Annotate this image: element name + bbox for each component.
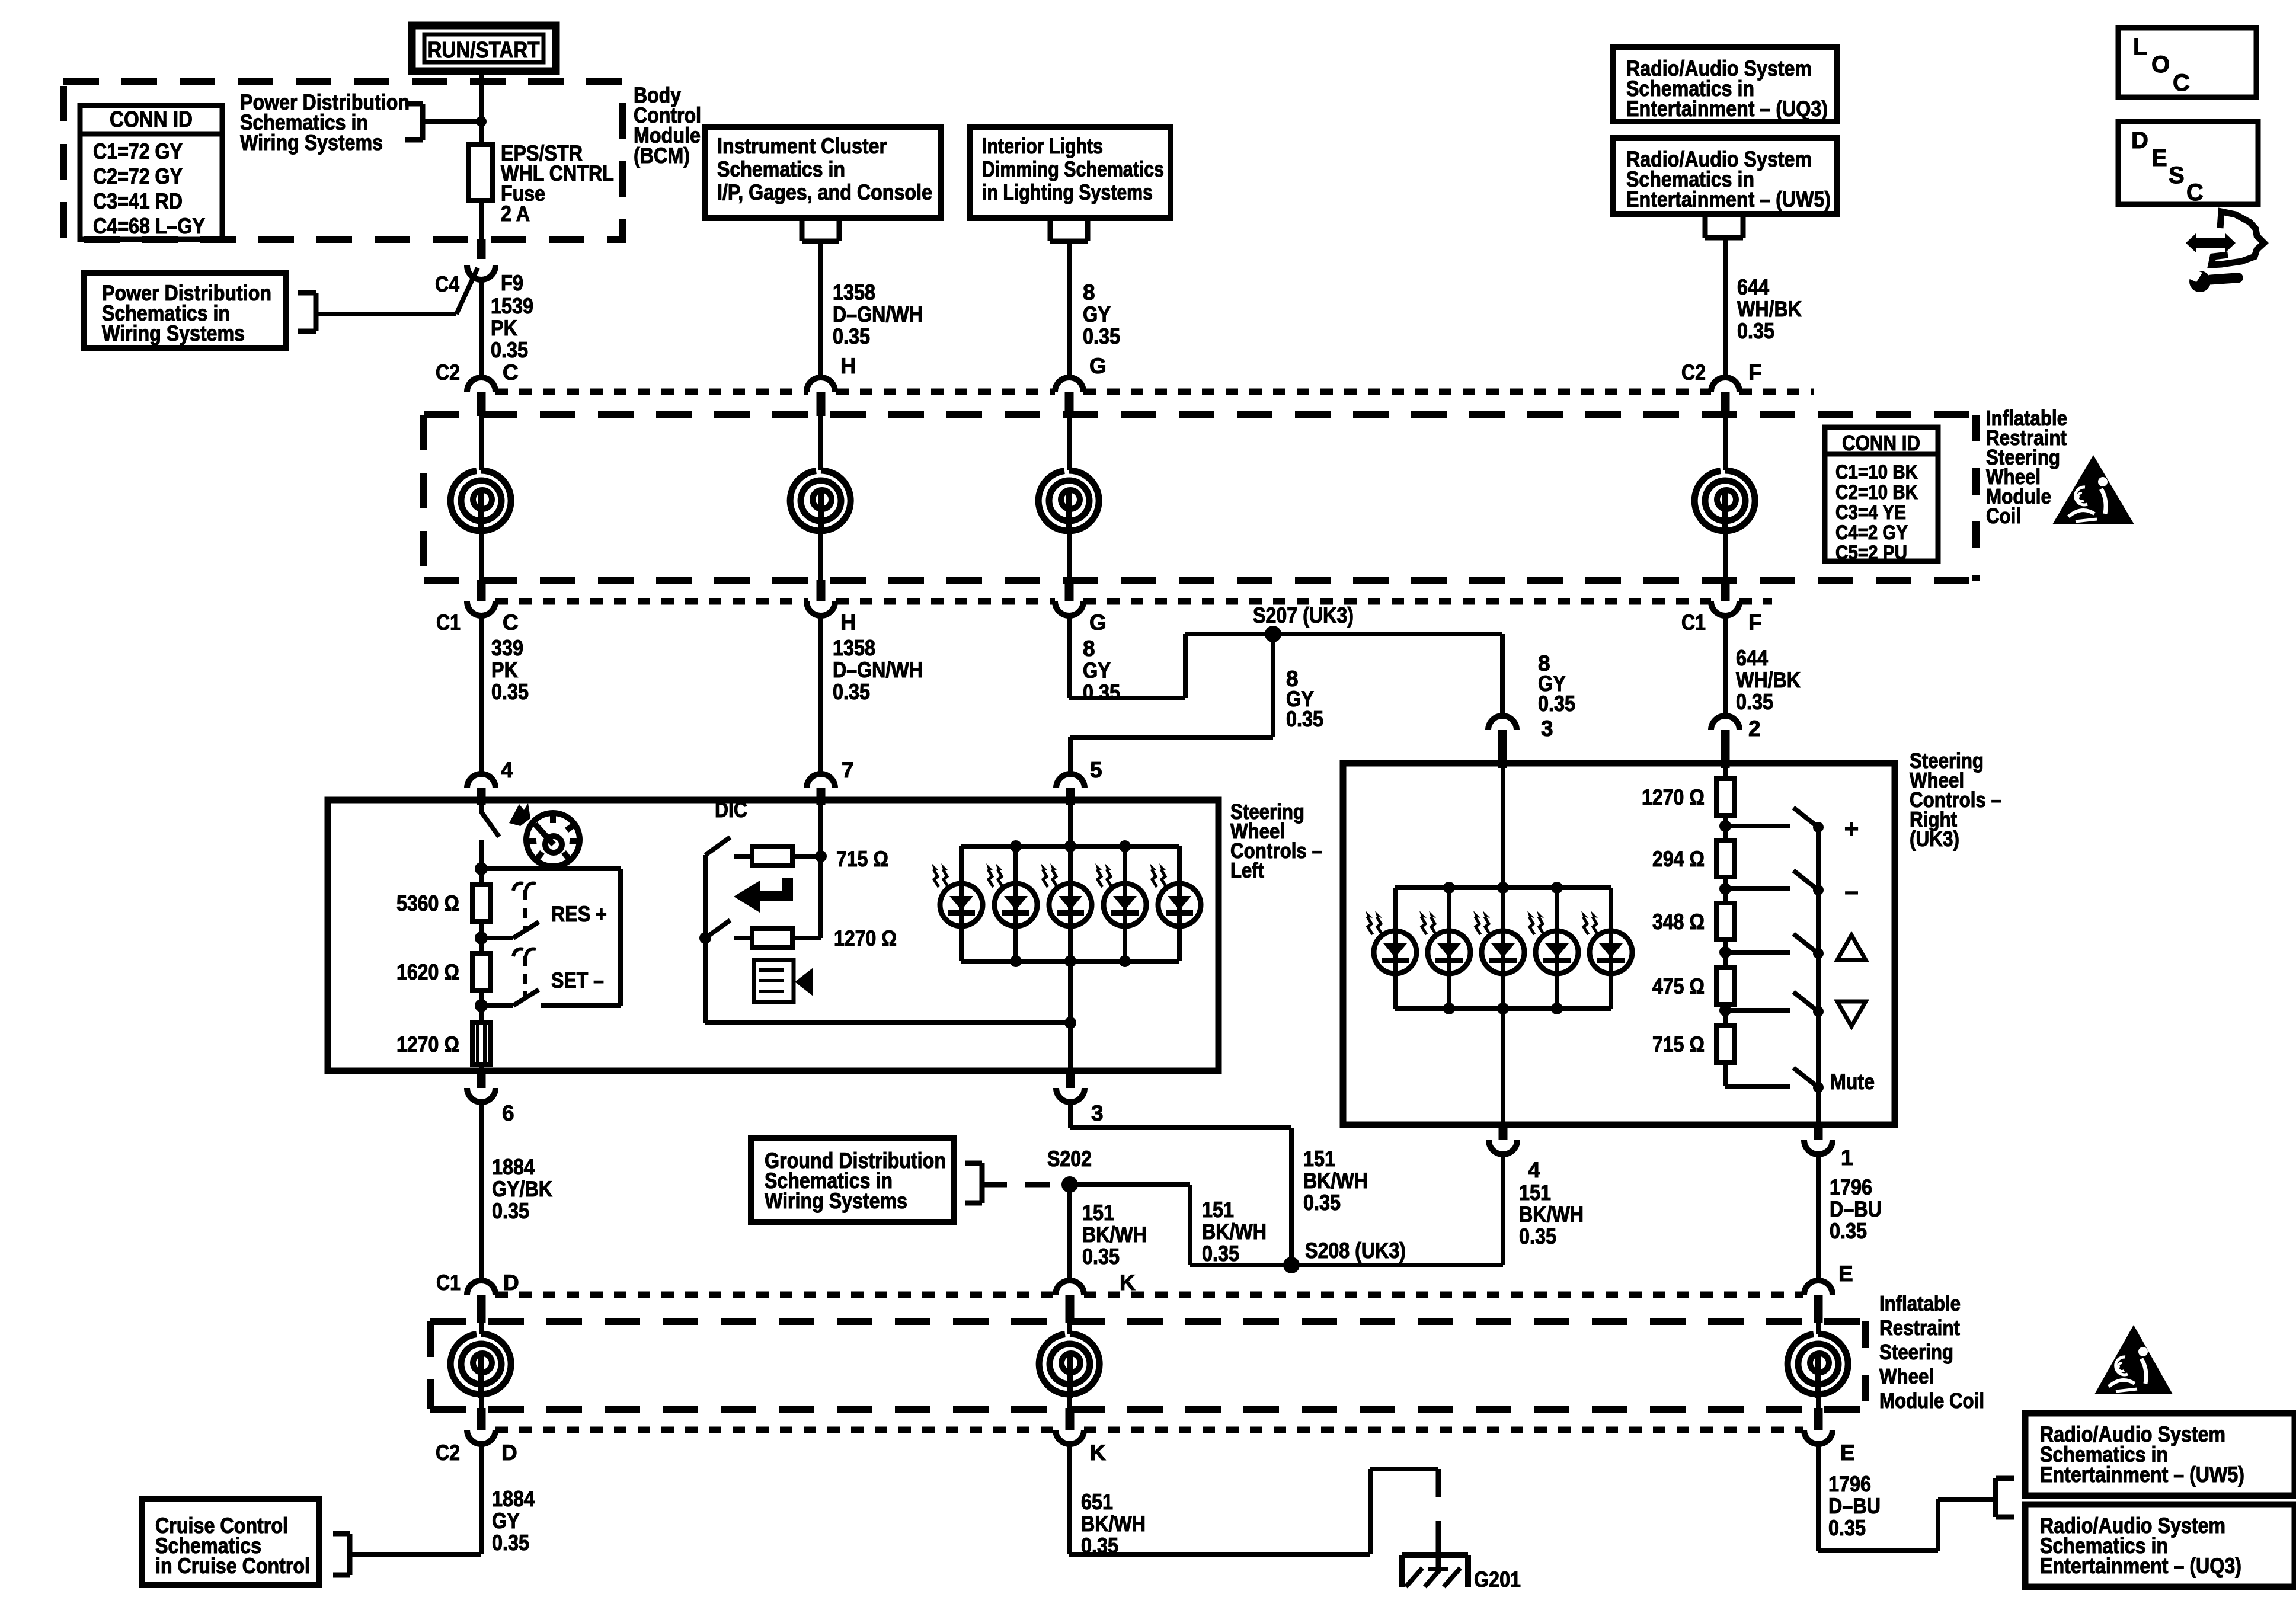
svg-text:1884: 1884 (492, 1487, 535, 1511)
table CONN ID (BCM connectors) (80, 105, 222, 239)
resistor 348 Ω (1716, 903, 1734, 940)
svg-text:1358: 1358 (833, 636, 875, 660)
LED array left box (961, 844, 1179, 849)
node junction top of resistor chain (475, 862, 488, 875)
svg-text:0.35: 0.35 (1083, 680, 1120, 705)
svg-text:151: 151 (1519, 1180, 1551, 1205)
svg-text:1358: 1358 (833, 280, 875, 305)
led D3 left (1068, 846, 1073, 961)
box Instrument Cluster Schematics (705, 127, 941, 218)
svg-text:F9: F9 (501, 271, 523, 295)
wire pin6 down (479, 1102, 484, 1281)
svg-text:S202: S202 (1047, 1147, 1092, 1171)
wire pin3 to S208 (1068, 1102, 1073, 1128)
svg-text:(UK3): (UK3) (1910, 827, 1959, 851)
switch blades right box (1793, 808, 1818, 827)
wire S208 to pin4 (1291, 1263, 1503, 1267)
box Interior Lights Dimming Schematics (970, 127, 1171, 218)
svg-text:C3=4 YE: C3=4 YE (1835, 501, 1906, 524)
svg-text:0.35: 0.35 (492, 1531, 529, 1555)
splice S208 (1283, 1257, 1300, 1273)
svg-text:C: C (2186, 180, 2204, 206)
led D5 left (1177, 846, 1182, 961)
resistor 1620 (472, 953, 490, 990)
svg-text:D: D (501, 1441, 517, 1465)
led D5 right (1609, 888, 1613, 1009)
svg-text:7: 7 (842, 758, 854, 782)
svg-text:C2: C2 (436, 360, 460, 385)
svg-text:2: 2 (1748, 716, 1761, 741)
switch cruise on/off (479, 805, 484, 813)
wire E to radio bracket (1816, 1444, 1821, 1551)
svg-text:E: E (2151, 145, 2167, 171)
wire 1358 down (818, 241, 823, 376)
svg-text:C4: C4 (435, 272, 459, 296)
coil element col 1804 (1067, 416, 1072, 470)
ground G201 (1436, 1541, 1441, 1569)
LED array right box (1395, 885, 1611, 890)
led D2 right (1447, 888, 1451, 1009)
warning triangle airbag (top) (2052, 455, 2134, 524)
bracket radio boxes (1703, 214, 1708, 238)
node junction 715/main (815, 850, 827, 862)
wire col C to S207 network (1067, 616, 1072, 698)
svg-text:RUN/START: RUN/START (428, 38, 540, 63)
svg-text:G: G (1089, 354, 1107, 378)
connector row1 col 2911 (1711, 377, 1739, 392)
resistor 1270 (DIC) (734, 936, 752, 940)
pin 6 (477, 1070, 486, 1088)
svg-text:CONN ID: CONN ID (1842, 431, 1920, 455)
connector row3 col 1805 (1056, 1281, 1084, 1295)
connector row3 col 812 (467, 1281, 495, 1295)
coil element bottom col 812 (479, 1323, 484, 1334)
resistor 475 Ω (1716, 968, 1734, 1004)
bracket interior lights (1048, 218, 1053, 241)
pin 3 (left box) (1066, 1070, 1075, 1088)
wire fuse to BCM edge (479, 200, 484, 239)
connector row1 col 1385 (807, 377, 835, 392)
pin 7 left box (807, 774, 835, 788)
icon arrows and wrench (2186, 233, 2236, 253)
svg-text:1: 1 (1841, 1145, 1853, 1170)
svg-text:715 Ω: 715 Ω (836, 847, 888, 871)
svg-text:Steering: Steering (1879, 1340, 1953, 1364)
node junction led/DIC (1064, 1017, 1076, 1029)
svg-text:BK/WH: BK/WH (1202, 1219, 1267, 1244)
svg-text:715 Ω: 715 Ω (1652, 1032, 1705, 1057)
resistor ladder col F (1723, 768, 1728, 779)
resistor 1270 (fuse style) (472, 1022, 490, 1065)
led D1 right (1393, 888, 1398, 1009)
connector C4/F9 pin (477, 239, 486, 259)
svg-text:in Lighting Systems: in Lighting Systems (982, 180, 1153, 204)
svg-text:6: 6 (502, 1101, 514, 1125)
svg-text:C: C (503, 610, 519, 635)
pin 4 (1499, 1124, 1508, 1140)
coil element col 1385 (818, 416, 823, 470)
svg-text:0.35: 0.35 (1830, 1219, 1867, 1243)
wire col B row2 to pin7 (818, 616, 823, 774)
box Radio/Audio UW5 (top) (1613, 138, 1837, 214)
bracket power distribution box (314, 293, 319, 331)
svg-text:0.35: 0.35 (833, 680, 870, 704)
connector row1 col 1804 (1055, 377, 1083, 392)
icon DIC display (754, 960, 794, 1002)
svg-text:D–BU: D–BU (1830, 1197, 1882, 1221)
svg-text:(BCM): (BCM) (634, 143, 690, 168)
svg-text:Mute: Mute (1830, 1070, 1875, 1094)
wire col F row2 to pin2 (1723, 616, 1728, 716)
svg-text:Interior Lights: Interior Lights (982, 134, 1103, 158)
svg-text:S: S (2169, 162, 2185, 188)
power source RUN/START (412, 25, 556, 71)
coil element col 2911 (1723, 416, 1728, 470)
svg-text:C2: C2 (436, 1441, 460, 1465)
svg-text:1796: 1796 (1830, 1175, 1872, 1199)
wire diagonal to power distribution (456, 268, 478, 314)
svg-text:K: K (1090, 1441, 1106, 1465)
svg-text:1884: 1884 (492, 1155, 535, 1179)
module box Steering Wheel Controls - Left (328, 800, 1219, 1071)
wire 644 down (1723, 238, 1728, 376)
svg-text:GY: GY (1083, 302, 1111, 327)
resistor 715 Ω (1716, 1026, 1734, 1062)
box Ground Distribution (751, 1138, 954, 1222)
svg-text:Coil: Coil (1986, 504, 2021, 528)
svg-text:C2=10 BK: C2=10 BK (1835, 481, 1918, 504)
svg-text:0.35: 0.35 (1083, 324, 1120, 348)
connector C4/F9 cup (467, 265, 495, 280)
switch taps (1719, 820, 1731, 832)
svg-text:H: H (840, 610, 856, 635)
wire col A row2 to pin4 (479, 616, 484, 774)
icon return arrow (734, 878, 793, 913)
svg-text:8: 8 (1083, 636, 1095, 661)
svg-text:0.35: 0.35 (492, 1199, 529, 1223)
splice S207 (1265, 626, 1281, 642)
svg-text:C3=41 RD: C3=41 RD (93, 189, 183, 213)
svg-text:I/P, Gages, and Console: I/P, Gages, and Console (717, 180, 932, 204)
wire S207 to pin 3 (1500, 634, 1505, 716)
svg-text:Module Coil: Module Coil (1879, 1388, 1984, 1413)
svg-text:Entertainment – (UQ3): Entertainment – (UQ3) (2040, 1554, 2241, 1578)
box Cruise Control Schematics (142, 1499, 319, 1585)
table CONN ID (coil) (1825, 427, 1938, 561)
svg-text:D–GN/WH: D–GN/WH (833, 658, 923, 682)
svg-text:0.35: 0.35 (1538, 692, 1575, 716)
node junction DIC lower blade (699, 932, 711, 944)
led D1 left (959, 846, 964, 961)
svg-text:F: F (1748, 360, 1762, 385)
svg-text:G: G (1089, 610, 1107, 635)
svg-text:5: 5 (1090, 758, 1102, 782)
svg-text:0.35: 0.35 (1828, 1516, 1866, 1540)
svg-text:0.35: 0.35 (1737, 319, 1774, 343)
svg-text:1270 Ω: 1270 Ω (396, 1032, 459, 1057)
led D3 right (1501, 888, 1505, 1009)
wire D to cruise (479, 1444, 484, 1554)
svg-text:E: E (1840, 1441, 1855, 1465)
module box Inflatable Restraint Steering Wheel Module Coil (bottom, dashed) (430, 1318, 1866, 1325)
icon arrow to switch (509, 803, 530, 826)
svg-text:475 Ω: 475 Ω (1652, 974, 1705, 998)
svg-text:WH/BK: WH/BK (1736, 668, 1801, 692)
pin 5 left box (1056, 774, 1085, 788)
svg-text:G201: G201 (1474, 1567, 1521, 1592)
svg-text:1539: 1539 (491, 294, 533, 318)
svg-text:C: C (2173, 70, 2190, 96)
bracket instrument cluster (800, 218, 805, 241)
coil element bottom col 1805 (1067, 1323, 1072, 1334)
svg-text:0.35: 0.35 (1519, 1224, 1556, 1249)
svg-text:1270 Ω: 1270 Ω (834, 926, 897, 950)
bracket ground box (980, 1163, 985, 1203)
svg-text:L: L (2133, 34, 2147, 60)
node junction SET tap (475, 999, 488, 1012)
coil element col 812 (479, 416, 484, 470)
node junction below RUN/START (476, 116, 487, 127)
module box Inflatable Restraint Steering Wheel Module Coil (top, dashed) (424, 411, 1976, 418)
svg-text:651: 651 (1081, 1490, 1113, 1514)
connector row3 col 3068 (1804, 1281, 1833, 1295)
svg-text:–: – (1844, 877, 1858, 905)
svg-text:Instrument Cluster: Instrument Cluster (717, 134, 887, 158)
svg-text:5360 Ω: 5360 Ω (396, 891, 459, 916)
svg-text:in Cruise Control: in Cruise Control (155, 1554, 310, 1578)
svg-text:Wiring Systems: Wiring Systems (765, 1189, 907, 1213)
svg-text:+: + (1844, 815, 1859, 843)
svg-text:0.35: 0.35 (491, 338, 528, 362)
connector row2 cup (1055, 601, 1083, 616)
harness connector line (dotted) row3 (495, 1292, 1055, 1298)
svg-text:Wheel: Wheel (1879, 1364, 1934, 1388)
svg-text:SET –: SET – (551, 968, 604, 993)
box Radio/Audio UQ3 (top) (1613, 47, 1837, 121)
svg-text:8: 8 (1083, 280, 1095, 305)
svg-text:1620 Ω: 1620 Ω (396, 960, 459, 984)
svg-text:0.35: 0.35 (491, 680, 529, 704)
module box BCM (dashed) (63, 81, 622, 239)
svg-text:644: 644 (1737, 275, 1769, 299)
connector row2 cup (1711, 601, 1739, 616)
svg-text:3: 3 (1541, 716, 1553, 741)
svg-text:0.35: 0.35 (1736, 690, 1773, 714)
svg-text:S208 (UK3): S208 (UK3) (1305, 1238, 1406, 1263)
svg-text:GY: GY (1083, 658, 1111, 683)
pin 2 right box (1711, 716, 1739, 730)
wire bracket to node (423, 119, 481, 124)
connector row1 col 812 (467, 377, 495, 392)
svg-text:K: K (1120, 1270, 1136, 1295)
svg-text:Dimming Schematics: Dimming Schematics (982, 157, 1164, 181)
svg-text:D–BU: D–BU (1828, 1494, 1881, 1518)
wire S202 down to K (1067, 1185, 1072, 1281)
svg-text:151: 151 (1082, 1201, 1114, 1225)
svg-text:2 A: 2 A (501, 201, 530, 226)
svg-text:348 Ω: 348 Ω (1652, 910, 1705, 934)
svg-text:4: 4 (1528, 1158, 1540, 1182)
node junction RES tap (475, 932, 488, 945)
wire 8 GY down (1067, 241, 1072, 376)
svg-text:Entertainment – (UW5): Entertainment – (UW5) (1626, 187, 1831, 212)
pin 1 (1814, 1124, 1823, 1140)
svg-text:0.35: 0.35 (1082, 1244, 1120, 1269)
resistor 294 Ω (1716, 840, 1734, 877)
resistor 1270 Ω (1716, 779, 1734, 815)
svg-text:0.35: 0.35 (1202, 1241, 1239, 1266)
svg-text:C1: C1 (436, 610, 461, 635)
svg-text:C4=2 GY: C4=2 GY (1835, 521, 1908, 544)
svg-text:C: C (503, 360, 519, 385)
harness connector line (dotted) row4 (495, 1427, 1055, 1433)
icon speedometer (526, 813, 580, 866)
coil element bottom col 3068 (1816, 1323, 1821, 1334)
legend box DESC (2118, 121, 2258, 204)
svg-text:0.35: 0.35 (1303, 1190, 1341, 1215)
svg-text:D–GN/WH: D–GN/WH (833, 302, 923, 327)
splice S202 (1061, 1176, 1078, 1193)
led D2 left (1013, 846, 1018, 961)
svg-text:O: O (2151, 52, 2170, 78)
svg-text:RES +: RES + (551, 902, 607, 926)
connector row2 cup (467, 601, 495, 616)
warning triangle airbag (bottom) (2094, 1325, 2173, 1394)
resistor 5360 (479, 869, 484, 884)
svg-text:151: 151 (1303, 1147, 1335, 1171)
svg-text:C1=10 BK: C1=10 BK (1835, 461, 1918, 484)
svg-text:GY: GY (492, 1509, 520, 1533)
box Radio/Audio UQ3 (bottom) (2025, 1505, 2295, 1587)
harness connector line (dotted) row1 (495, 389, 808, 395)
svg-text:S207 (UK3): S207 (UK3) (1253, 603, 1354, 628)
svg-text:Schematics in: Schematics in (717, 157, 845, 181)
svg-text:Inflatable: Inflatable (1879, 1291, 1961, 1315)
svg-text:PK: PK (491, 316, 517, 340)
svg-text:C5=2 PU: C5=2 PU (1835, 542, 1907, 564)
svg-text:1270 Ω: 1270 Ω (1642, 785, 1705, 809)
svg-text:Entertainment – (UQ3): Entertainment – (UQ3) (1626, 97, 1828, 121)
box Radio/Audio UW5 (bottom) (2025, 1413, 2295, 1496)
svg-text:151: 151 (1202, 1198, 1234, 1222)
wire RUN/START down (479, 69, 484, 145)
svg-text:D: D (2131, 127, 2148, 153)
svg-text:C2: C2 (1681, 360, 1706, 385)
led D4 left (1123, 846, 1127, 961)
switch rail to pin1 (1816, 827, 1821, 1125)
wire pin3 main column (1501, 768, 1505, 1125)
svg-text:Restraint: Restraint (1879, 1315, 1960, 1340)
resistor 715 (DIC) (734, 854, 752, 859)
led D4 right (1555, 888, 1559, 1009)
svg-text:339: 339 (491, 636, 523, 660)
svg-text:0.35: 0.35 (1286, 707, 1323, 731)
svg-text:BK/WH: BK/WH (1082, 1222, 1147, 1247)
svg-text:H: H (840, 354, 856, 378)
pin 3 right box (1488, 716, 1517, 730)
connector row2 cup (807, 601, 835, 616)
switch SET - (481, 1003, 513, 1008)
svg-text:BK/WH: BK/WH (1519, 1202, 1584, 1227)
svg-text:C1=72 GY: C1=72 GY (93, 139, 183, 164)
bracket cruise box (347, 1534, 353, 1575)
wire K to G201 (1067, 1444, 1072, 1554)
svg-text:Left: Left (1230, 858, 1264, 882)
svg-text:644: 644 (1736, 646, 1768, 670)
svg-text:Wiring Systems: Wiring Systems (102, 321, 245, 345)
wire led rail to pin3 (1068, 805, 1073, 846)
module box Steering Wheel Controls - Right (UK3) (1343, 763, 1895, 1125)
bracket to power distribution (420, 104, 426, 140)
svg-text:BK/WH: BK/WH (1081, 1512, 1146, 1536)
svg-text:Entertainment – (UW5): Entertainment – (UW5) (2040, 1462, 2244, 1487)
wire DIC common to LED rail (705, 1020, 1070, 1025)
pin 4 left box (467, 774, 495, 788)
legend box LOC (2118, 28, 2256, 97)
bracket radio boxes bottom (1993, 1478, 1998, 1517)
svg-text:4: 4 (501, 758, 513, 782)
svg-text:PK: PK (491, 658, 518, 682)
svg-text:BK/WH: BK/WH (1303, 1169, 1368, 1193)
svg-text:GY/BK: GY/BK (492, 1177, 552, 1201)
svg-text:C1: C1 (1681, 610, 1706, 635)
harness connector line (dotted) row2 (495, 598, 808, 605)
wire col B inside box (818, 805, 823, 938)
svg-text:F: F (1748, 610, 1762, 635)
wire C4 to C2 (479, 279, 484, 377)
svg-text:C2=72 GY: C2=72 GY (93, 164, 183, 188)
svg-text:DIC: DIC (715, 798, 747, 822)
svg-text:E: E (1838, 1262, 1853, 1286)
svg-text:WH/BK: WH/BK (1737, 297, 1802, 321)
svg-text:CONN ID: CONN ID (110, 107, 193, 132)
wire RES/SET output rail (481, 866, 621, 871)
wire S202 right leg (1070, 1182, 1190, 1187)
svg-text:3: 3 (1091, 1101, 1104, 1125)
svg-text:0.35: 0.35 (1081, 1534, 1118, 1558)
svg-text:C4=68 L–GY: C4=68 L–GY (93, 214, 205, 238)
svg-text:1796: 1796 (1828, 1472, 1871, 1496)
box Power Distribution Schematics in Wiring Systems (84, 273, 286, 348)
svg-text:Wiring Systems: Wiring Systems (240, 130, 383, 155)
switch RES + (481, 936, 513, 940)
svg-text:C1: C1 (436, 1270, 461, 1295)
wire pin1 down (1816, 1153, 1821, 1281)
svg-text:D: D (503, 1270, 519, 1295)
svg-text:0.35: 0.35 (833, 324, 870, 348)
fuse EPS/STR WHL CNTRL 2A (469, 145, 493, 200)
svg-text:294 Ω: 294 Ω (1652, 847, 1705, 871)
